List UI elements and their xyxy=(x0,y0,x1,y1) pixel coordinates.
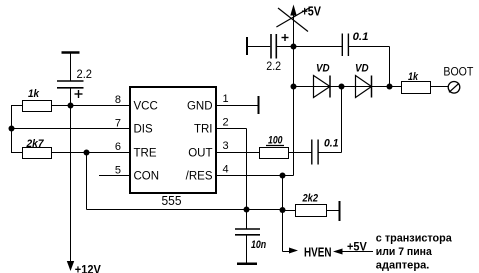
svg-text:VCC: VCC xyxy=(134,101,158,113)
svg-text:DIS: DIS xyxy=(134,124,154,136)
svg-text:5: 5 xyxy=(115,165,121,177)
svg-text:100: 100 xyxy=(268,135,283,147)
svg-text:CON: CON xyxy=(134,171,160,183)
svg-text:10n: 10n xyxy=(251,239,266,251)
svg-text:1k: 1k xyxy=(408,71,419,83)
svg-text:555: 555 xyxy=(162,194,182,208)
svg-text:6: 6 xyxy=(115,141,121,153)
svg-text:2: 2 xyxy=(223,117,229,129)
svg-text:HVEN: HVEN xyxy=(304,246,332,260)
svg-text:+5V: +5V xyxy=(347,242,367,254)
svg-text:TRE: TRE xyxy=(134,148,157,160)
svg-text:2k2: 2k2 xyxy=(302,193,318,205)
svg-text:/RES: /RES xyxy=(186,171,213,183)
svg-text:VD: VD xyxy=(355,63,369,75)
svg-text:4: 4 xyxy=(223,164,229,176)
svg-text:1: 1 xyxy=(223,93,229,105)
svg-text:2.2: 2.2 xyxy=(266,59,281,73)
svg-text:+5V: +5V xyxy=(302,5,322,19)
svg-text:2.2: 2.2 xyxy=(77,67,93,81)
svg-text:или 7 пина: или 7 пина xyxy=(376,246,433,258)
svg-text:3: 3 xyxy=(223,140,229,152)
svg-text:1k: 1k xyxy=(28,88,40,100)
svg-text:OUT: OUT xyxy=(188,148,212,160)
svg-text:8: 8 xyxy=(115,94,121,106)
svg-text:+12V: +12V xyxy=(75,262,101,273)
svg-text:0.1: 0.1 xyxy=(353,31,369,43)
svg-text:0.1: 0.1 xyxy=(324,138,339,150)
svg-text:GND: GND xyxy=(187,101,213,113)
svg-text:7: 7 xyxy=(115,118,121,130)
svg-text:адаптера.: адаптера. xyxy=(376,260,430,272)
svg-text:с транзистора: с транзистора xyxy=(376,233,453,245)
svg-text:BOOT: BOOT xyxy=(443,65,474,79)
svg-text:VD: VD xyxy=(316,63,330,75)
svg-text:TRI: TRI xyxy=(194,124,213,136)
svg-text:2k7: 2k7 xyxy=(26,138,45,150)
